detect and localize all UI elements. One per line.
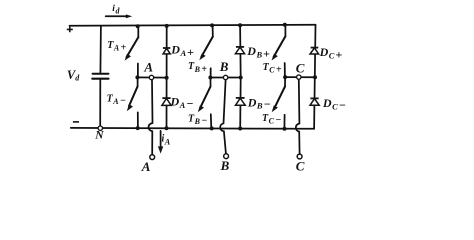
- transistor TB- upper stub: [210, 78, 212, 87]
- transistor TC+ lower stub: [284, 63, 286, 77]
- junction dot: TC- at bottom bus: [283, 127, 287, 131]
- transistor TC- upper stub: [284, 77, 286, 86]
- wire: phase A output with crossover hop: [148, 80, 152, 154]
- transistor TA+ lower stub: [137, 64, 139, 78]
- junction dot: TA+ at top bus: [136, 24, 140, 28]
- transistor TC+ blade: [274, 36, 286, 57]
- transistor TA- upper stub: [137, 77, 139, 86]
- wire: bottom DC bus (- rail): [71, 127, 314, 130]
- svg-text:B: B: [219, 59, 229, 74]
- svg-text:DA+: DA+: [170, 42, 194, 58]
- svg-text:DC+: DC+: [319, 45, 343, 61]
- diode DB- triangle: [236, 98, 246, 105]
- capacitor Cd top plate: [93, 73, 109, 75]
- svg-text:B: B: [220, 158, 230, 173]
- junction dot: TB+ at top bus: [210, 23, 214, 27]
- junction dot: phase A midline right: [165, 76, 169, 80]
- svg-text:A: A: [143, 60, 153, 75]
- minus polarity symbol: [73, 121, 79, 123]
- transistor TA+ blade: [127, 37, 139, 57]
- current iA arrow shaft: [160, 131, 162, 147]
- transistor TC- arrowhead: [272, 105, 278, 112]
- diode DC- cathode bar: [310, 97, 318, 99]
- current id arrow shaft: [106, 15, 127, 17]
- svg-text:TA−: TA−: [107, 94, 126, 107]
- diode DA+ cathode bar: [163, 47, 170, 49]
- transistor TC+ arrowhead: [272, 54, 278, 61]
- transistor TB- arrowhead: [198, 105, 204, 112]
- diode DC- triangle: [310, 99, 319, 106]
- junction dot: TB- at bottom bus: [210, 126, 214, 130]
- junction dot: phase B midline right: [239, 76, 243, 80]
- junction dot: DA- at bottom bus: [165, 126, 169, 130]
- diode DA- triangle: [162, 98, 171, 105]
- wire: phase B output with crossover hop: [220, 80, 226, 153]
- node N terminal circle: [98, 126, 102, 130]
- current id arrowhead: [126, 14, 132, 18]
- transistor TB+ arrowhead: [199, 54, 205, 61]
- svg-text:DB−: DB−: [247, 95, 271, 111]
- transistor TA+ arrowhead: [125, 54, 131, 61]
- junction dot: phase A midline left: [135, 75, 139, 79]
- svg-text:TC−: TC−: [262, 113, 281, 126]
- transistor TB- lower stub: [210, 114, 213, 128]
- terminal A output circle: [150, 155, 155, 160]
- transistor TA- lower stub: [137, 112, 139, 128]
- wire: phase B midline: [210, 77, 240, 79]
- junction dot: TC+ at top bus: [283, 23, 287, 27]
- junction dot: DA+ at top bus: [165, 24, 169, 28]
- svg-text:C: C: [296, 159, 305, 174]
- diode DC+ cathode bar: [311, 47, 319, 49]
- wire: top DC bus (+ rail): [70, 25, 316, 26]
- wire: phase A midline: [137, 76, 166, 78]
- svg-text:TB−: TB−: [188, 114, 207, 127]
- svg-text:DB+: DB+: [246, 44, 270, 60]
- wire: right vertical leg (DC+ / DC- diode branch): [314, 25, 315, 129]
- terminal C output circle: [297, 154, 302, 159]
- wire: phase C midline: [285, 76, 315, 78]
- plus polarity symbol: [67, 27, 73, 33]
- diode DA- cathode bar: [162, 97, 170, 99]
- diode DB- branch wire: [239, 78, 242, 129]
- transistor TA- arrowhead: [127, 104, 133, 111]
- diode DC+ triangle: [310, 48, 319, 54]
- diode DA- branch wire: [166, 78, 168, 129]
- diode DB+ triangle: [235, 47, 244, 54]
- svg-text:N: N: [94, 129, 104, 141]
- junction dot: DB- at bottom bus: [238, 127, 242, 131]
- diode DA+ triangle: [163, 48, 170, 54]
- transistor TB+ upper stub: [212, 25, 214, 36]
- wire: capacitor branch upper: [99, 26, 102, 73]
- diode DB- cathode bar: [236, 97, 245, 99]
- node C midline terminal circle: [297, 75, 301, 79]
- node B midline terminal circle: [223, 75, 227, 79]
- transistor TA- blade: [129, 86, 138, 106]
- svg-text:TA+: TA+: [107, 40, 126, 54]
- diode DB+ branch wire: [239, 25, 242, 77]
- junction dot: DB+ at top bus: [238, 23, 242, 27]
- svg-text:C: C: [296, 60, 305, 75]
- svg-text:A: A: [141, 159, 151, 174]
- junction dot: TA- at bottom bus: [136, 126, 140, 130]
- wire: phase C output with crossover hop: [296, 80, 300, 154]
- svg-text:TC+: TC+: [263, 62, 282, 76]
- svg-text:DC−: DC−: [322, 96, 346, 112]
- transistor TC- blade: [274, 87, 285, 109]
- junction dot: phase B midline left: [208, 76, 212, 80]
- diode DA+ branch wire: [166, 26, 168, 78]
- capacitor Cd bottom plate: [92, 78, 108, 80]
- current iA arrowhead: [158, 146, 163, 153]
- transistor TC- lower stub: [283, 115, 285, 129]
- terminal B output circle: [224, 154, 229, 159]
- transistor TB+ blade: [201, 37, 212, 57]
- svg-text:Vd: Vd: [67, 68, 80, 83]
- transistor TA+ upper stub: [137, 26, 139, 37]
- diode DB+ cathode bar: [236, 46, 244, 48]
- transistor TB+ lower stub: [210, 68, 212, 77]
- transistor TC+ upper stub: [284, 25, 286, 36]
- junction dot: phase C midline left: [283, 75, 287, 79]
- wire: capacitor branch lower: [99, 80, 101, 126]
- svg-text:TB+: TB+: [188, 61, 207, 75]
- svg-text:DA−: DA−: [170, 95, 194, 111]
- junction dot: phase C midline right: [313, 75, 317, 79]
- svg-text:id: id: [112, 4, 120, 15]
- node A midline terminal circle: [149, 75, 153, 79]
- transistor TB- blade: [200, 87, 210, 109]
- svg-text:iA: iA: [162, 134, 171, 147]
